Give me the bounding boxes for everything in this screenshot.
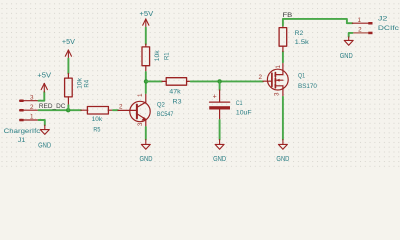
wire R3 to Q1 gate [191,80,263,82]
svg-text:R5: R5 [93,127,100,134]
wire J1 pin1 to GND [39,120,45,125]
resistor R5 [81,107,113,115]
svg-text:1: 1 [275,65,282,69]
svg-text:1: 1 [357,17,361,24]
wire J2 pin2 to GND [349,33,353,37]
wire +5V to R1 [145,28,147,44]
svg-text:R4: R4 [84,80,91,88]
wire R4 to RED_DC junction [67,105,69,110]
svg-text:1.5k: 1.5k [295,39,310,46]
svg-text:10k: 10k [76,77,83,89]
svg-text:10k: 10k [154,50,161,62]
wire J1 pin3 to +5V [39,92,45,101]
wire Q1 source to GND [282,97,284,140]
svg-text:Q1: Q1 [298,73,305,80]
junction RED_DC node [66,108,70,112]
resistor R2 [279,26,287,52]
wire junction to R3 [146,80,162,82]
svg-text:DCIfc: DCIfc [378,25,400,32]
svg-text:ChargerIfc: ChargerIfc [4,128,41,135]
transistor Q1 [263,62,288,97]
svg-text:GND: GND [140,156,153,163]
svg-text:1: 1 [30,114,34,121]
wire R1 to collector junction [145,72,147,93]
svg-text:2: 2 [30,104,34,111]
connector J1 [19,100,38,122]
wire R5 to Q2 base [113,109,118,111]
svg-text:3: 3 [137,122,144,126]
svg-text:C1: C1 [236,100,243,107]
svg-text:47k: 47k [169,88,181,95]
svg-text:3: 3 [274,92,281,96]
ground (under J2) [344,37,353,45]
connector J2 [352,22,372,34]
svg-text:GND: GND [276,156,289,163]
svg-text:J1: J1 [18,137,26,144]
svg-text:GND: GND [38,143,51,150]
transistor Q2 [118,93,150,127]
svg-text:+: + [213,94,217,101]
svg-text:J2: J2 [378,15,388,22]
junction node R1/Q2/R3 [144,79,148,83]
svg-text:+5V: +5V [37,73,51,80]
wire Q2 emitter to GND [145,127,147,140]
junction node C1 tap [217,79,221,83]
svg-text:GND: GND [213,156,226,163]
power +5V (above R4) [65,50,71,59]
resistor R4 [65,74,73,106]
wire R2 top to J2 pin1 (net FB) [283,19,353,26]
wire R2 bottom to Q1 drain [282,52,284,63]
ground (under C1) [215,140,224,150]
svg-text:FB: FB [283,12,293,19]
wire junction to C1 [219,81,221,90]
svg-text:2: 2 [258,74,262,81]
svg-text:1: 1 [137,93,144,97]
resistor R3 [162,78,191,86]
svg-text:BC547: BC547 [157,111,174,118]
wire C1 to GND [219,120,221,140]
svg-text:3: 3 [30,94,34,101]
svg-text:2: 2 [358,27,362,34]
svg-text:GND: GND [340,53,353,60]
wire J1 pin2 to R5 (net RED_DC) [39,109,82,111]
svg-text:R1: R1 [163,52,170,60]
ground (under Q2) [141,140,150,150]
power +5V (above J1) [41,83,47,92]
svg-text:Q2: Q2 [157,102,165,109]
ground (under J1) [40,125,49,134]
svg-text:10k: 10k [92,116,103,123]
resistor R1 [142,44,150,72]
svg-text:2: 2 [119,104,123,111]
svg-text:R2: R2 [295,30,304,37]
svg-text:+5V: +5V [139,11,153,18]
svg-text:+5V: +5V [62,39,75,46]
wire +5V to R4 [67,59,69,74]
capacitor C1 [209,90,230,120]
svg-text:R3: R3 [173,99,182,106]
ground (under Q1) [278,140,287,150]
svg-text:BS170: BS170 [298,83,317,90]
svg-text:RED_DC: RED_DC [39,103,66,110]
svg-text:10uF: 10uF [236,110,252,117]
power +5V (above R1) [143,19,149,28]
